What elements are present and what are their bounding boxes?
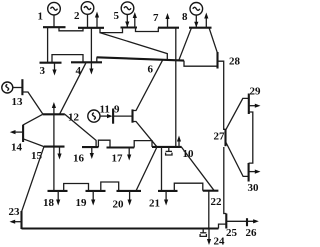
bus 5 (121, 26, 138, 28)
wire 4-12 (60, 62, 87, 114)
wire 1-3 (47, 27, 49, 63)
generator G8 (190, 3, 203, 28)
wire 23-24 (bus 24 bar) (22, 227, 219, 229)
bus 12 (43, 113, 65, 115)
wire 19-20 (101, 182, 119, 191)
load arrow bus 18 (56, 191, 60, 206)
generator G1 (48, 2, 61, 27)
wire 6-9 (133, 60, 163, 110)
bus 17 (107, 146, 135, 148)
load arrow bus 15 (57, 147, 61, 160)
bus 2 (78, 27, 104, 29)
svg-text:20: 20 (113, 199, 125, 211)
bus 30 (248, 163, 250, 182)
svg-text:9: 9 (114, 104, 120, 116)
wire 18-19 (64, 184, 89, 191)
bus 4 (71, 61, 102, 63)
bus 18 (48, 190, 68, 192)
bus 25 (225, 214, 227, 229)
wire 3-4 (52, 55, 83, 63)
wire 25-27 (224, 147, 227, 214)
wire 1-2 (59, 27, 83, 31)
wire 21-22 (174, 183, 203, 191)
wire 27-29 (226, 98, 249, 129)
load arrow bus 16 (90, 147, 94, 159)
svg-text:5: 5 (114, 10, 120, 22)
wire 6-7 and 6-10 (175, 28, 177, 147)
bus 13 (21, 79, 23, 95)
svg-text:28: 28 (229, 56, 241, 68)
svg-text:6: 6 (148, 64, 154, 76)
bus 3 (40, 62, 62, 64)
wire 5-7 (136, 28, 159, 32)
wire 27-30 (226, 143, 249, 177)
load arrow bus 7 (165, 13, 169, 28)
load arrow bus 12 (52, 102, 56, 114)
wire 2-4 (90, 28, 92, 63)
load arrow bus 30 (249, 170, 261, 174)
svg-text:13: 13 (12, 96, 24, 108)
load arrow bus 23 (10, 220, 22, 224)
wire 10-22 (181, 147, 214, 191)
generator G2 (81, 2, 94, 28)
svg-text:14: 14 (11, 142, 23, 154)
svg-text:17: 17 (112, 153, 124, 165)
generator G13 (2, 82, 23, 93)
load arrow bus 20 (128, 191, 132, 206)
svg-text:2: 2 (74, 10, 80, 22)
wire 10-20 (136, 147, 157, 191)
svg-text:18: 18 (43, 197, 55, 209)
svg-text:8: 8 (182, 11, 188, 23)
bus 27 (224, 129, 226, 146)
bus 29 (248, 94, 250, 115)
bus 14 (22, 125, 24, 142)
svg-text:29: 29 (250, 86, 262, 98)
bus 11 (112, 109, 114, 124)
bus 20 (117, 190, 142, 192)
load arrow bus 5 (133, 12, 137, 28)
wire 16-17 (98, 140, 110, 147)
svg-text:27: 27 (214, 131, 226, 143)
svg-text:25: 25 (226, 227, 238, 239)
load arrow bus 17 (127, 148, 131, 161)
load arrow bus 2 (95, 12, 99, 28)
bus 28 (216, 52, 218, 69)
wire 29-30 (249, 112, 253, 163)
load arrow bus 29 (249, 104, 261, 108)
wire 10-21 (161, 147, 163, 191)
wire 11-9 (113, 115, 132, 117)
bus 8 (189, 27, 212, 29)
svg-text:24: 24 (214, 236, 226, 247)
load arrow bus 4 (89, 62, 93, 74)
wire 12-15 and 15-18 (53, 114, 55, 191)
wire 25-26 with load arrow bus 26 (226, 219, 258, 223)
svg-text:23: 23 (9, 206, 21, 218)
load arrow bus 21 (164, 191, 168, 206)
bus 15 (44, 146, 65, 148)
wire 9-10 (133, 122, 158, 147)
wire 8-28 (209, 28, 217, 53)
svg-text:19: 19 (76, 197, 88, 209)
svg-text:4: 4 (76, 65, 82, 77)
svg-text:22: 22 (211, 196, 223, 208)
wire 6-28 (184, 61, 218, 67)
bus 21 (158, 190, 178, 192)
wire 2-5 (100, 28, 123, 33)
wire 22-24 (208, 191, 210, 229)
load arrow bus 10 (177, 136, 181, 147)
svg-text:7: 7 (153, 12, 159, 24)
wire 28-27 (218, 61, 226, 129)
wire 8-6 (179, 28, 192, 60)
svg-text:1: 1 (38, 11, 44, 23)
wire 15-23 (22, 147, 44, 212)
load arrow bus 14 (10, 130, 23, 134)
wire 12-16 (65, 114, 96, 147)
wire 14-15 (23, 139, 44, 147)
svg-text:30: 30 (248, 182, 260, 194)
bus 23 (20, 211, 22, 229)
bus 22 (203, 190, 219, 192)
svg-text:26: 26 (246, 227, 258, 239)
bus 9 (131, 109, 133, 122)
load arrow bus 24 (207, 229, 211, 246)
wire 12-13 (22, 92, 42, 114)
shunt capacitor bus 24 (200, 229, 206, 237)
bus 16 (82, 146, 98, 148)
load arrow bus 8 (204, 13, 208, 28)
svg-text:3: 3 (40, 65, 46, 77)
load arrow bus 19 (91, 191, 95, 206)
wire 12-14 (23, 114, 43, 125)
svg-text:11: 11 (100, 104, 110, 116)
load arrow bus 3 (52, 63, 56, 76)
bus 26 (246, 218, 248, 226)
wire 10-17 (134, 141, 152, 148)
wire 24-25 (219, 224, 227, 228)
bus 7 (158, 27, 179, 29)
bus 1 (43, 26, 66, 28)
wire 4-6 (96, 57, 98, 62)
shunt capacitor bus 10 (166, 147, 172, 155)
svg-text:16: 16 (73, 153, 85, 165)
generator G11 (88, 110, 113, 122)
generator G5 (121, 2, 134, 27)
svg-text:21: 21 (149, 198, 160, 210)
bus 19 (86, 190, 106, 192)
bus 6 (97, 57, 184, 60)
bus 10 (152, 146, 182, 148)
wire 2-6 (100, 33, 168, 60)
